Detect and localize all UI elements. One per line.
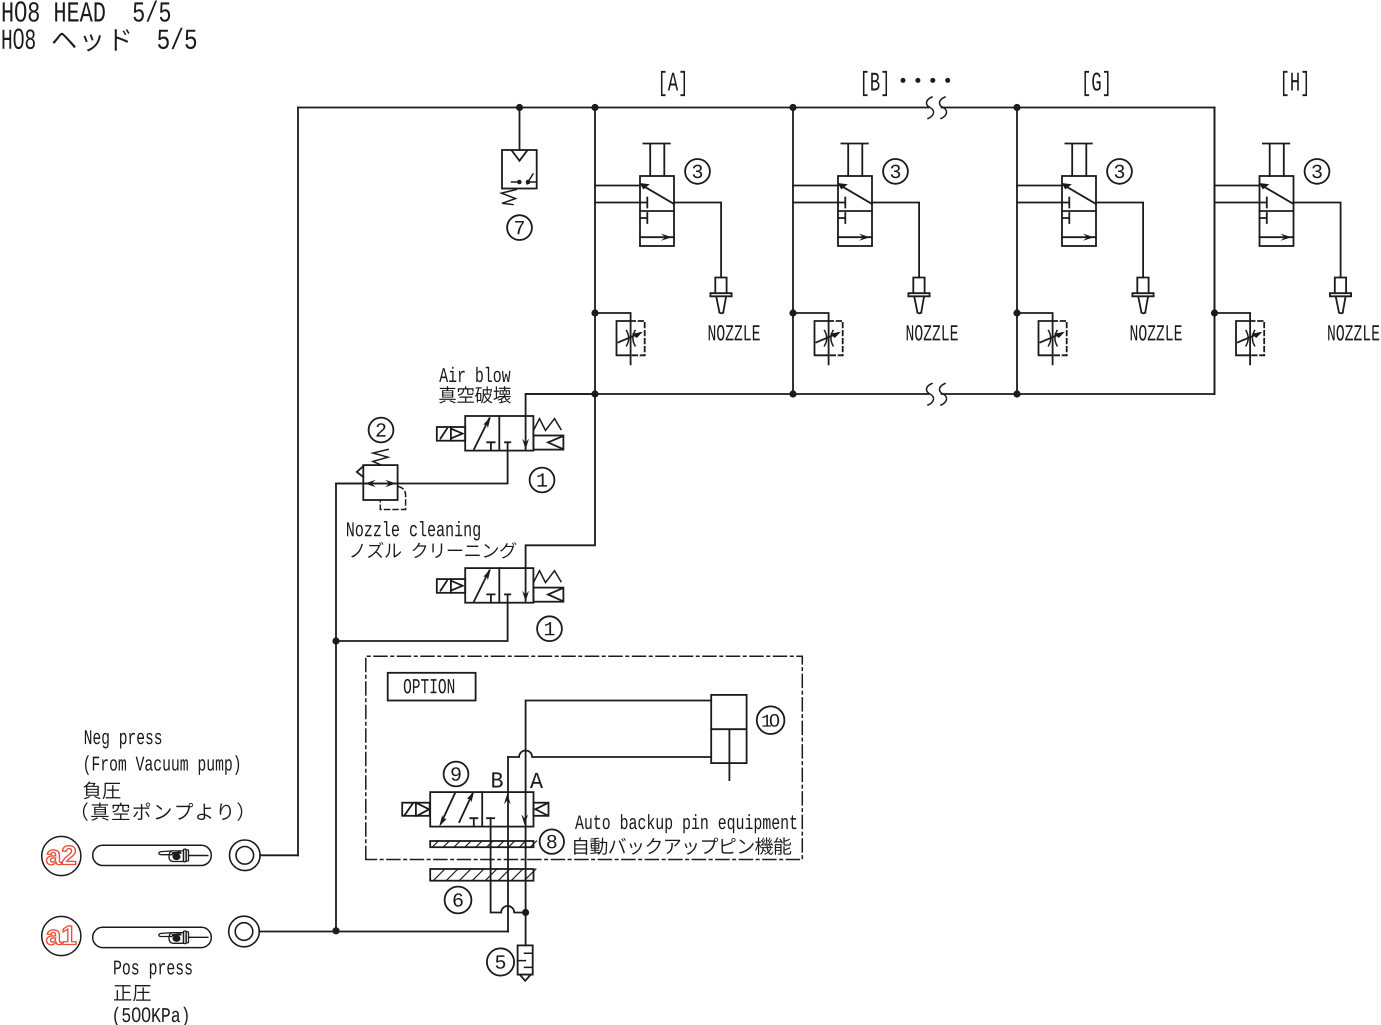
- vacuum switch 7 body: [502, 150, 537, 189]
- a1 port double circle: [229, 916, 260, 947]
- header [H]: [1283, 71, 1307, 96]
- From Vacuum pump label: [85, 755, 239, 775]
- junction meter branch H: [1211, 309, 1218, 316]
- vacuum bus (bottom): [526, 393, 1215, 395]
- valve 9 pilot return box: [534, 803, 549, 816]
- a2 wire to riser: [260, 854, 298, 856]
- title line 2b: [158, 28, 196, 49]
- head group [H] valve+nozzle+meter: [1215, 108, 1352, 395]
- exhaust line from valve 9 with hop: [491, 818, 526, 912]
- title line 1: [3, 0, 170, 21]
- Nozzle cleaning label: [347, 521, 480, 541]
- balloon 1 nozzle cleaning: [537, 616, 562, 641]
- title line 2a: [3, 29, 35, 50]
- balloon 3 of group A: [685, 159, 710, 184]
- title line 2 katakana HEADO: [53, 29, 130, 51]
- left neg-press riser from a2: [297, 108, 299, 856]
- junction meter branch A: [591, 309, 598, 316]
- balloon 7: [507, 215, 532, 240]
- balloon 2: [369, 418, 394, 443]
- pos press kanji SEIATSU: [114, 985, 151, 1001]
- nozzle cleaning katakana: [351, 542, 516, 559]
- wire from top bus to vacuum switch 7: [519, 108, 521, 151]
- junction top bus / column G: [1013, 104, 1020, 111]
- port label A: [530, 773, 543, 788]
- Air blow label: [439, 367, 510, 382]
- junction top bus / column A: [591, 104, 598, 111]
- junction vacuum bus / column B: [789, 390, 796, 397]
- a2 hand pointer: [159, 849, 189, 862]
- nozzle cleaning valve outlet to pos-press riser: [336, 594, 508, 641]
- balloon 10: [757, 706, 785, 734]
- valve 9 crossed diagonals: [442, 793, 456, 823]
- supply line from vacuum bus to air blow valve: [526, 394, 595, 449]
- Pos press label: [114, 961, 192, 979]
- valve 9 up arrow (supply to B): [504, 794, 511, 805]
- Auto backup pin equipment label: [575, 814, 796, 833]
- a2 port double circle: [230, 840, 261, 871]
- a1 supply wire: [259, 931, 508, 933]
- Neg press label: [85, 730, 161, 748]
- junction meter branch B: [789, 309, 796, 316]
- silencer 5: [518, 945, 533, 974]
- head group [G] valve+nozzle+meter: [1017, 108, 1154, 395]
- OPTION label box: [388, 673, 476, 701]
- air blow kanji SHINKU-HAKAI: [439, 386, 511, 403]
- exhaust drop to silencer 5: [525, 913, 527, 946]
- neg press kanji paren: [83, 802, 242, 821]
- cylinder A line: [526, 701, 712, 913]
- head group [B] valve+nozzle+meter: [793, 108, 930, 395]
- regulator 2 feedback dashed: [380, 487, 405, 510]
- NOZZLE label H: [1328, 325, 1379, 341]
- dots after [B]: [901, 78, 906, 83]
- a1 capsule: [93, 927, 212, 947]
- a1 tag circle: [42, 916, 81, 955]
- air blow valve outlet to regulator: [336, 442, 508, 483]
- regulator 2 body: [363, 465, 397, 500]
- auto backup kanji: [574, 837, 791, 855]
- a1 hand pointer: [159, 931, 189, 944]
- backup pin plate 8 (hatched): [430, 841, 533, 847]
- a2 tag circle: [42, 836, 81, 875]
- balloon 8: [540, 829, 564, 853]
- header [B]: [863, 71, 887, 96]
- OPTION text: [404, 679, 454, 694]
- balloon 3 of group B: [883, 159, 908, 184]
- NOZZLE label G: [1131, 325, 1182, 341]
- junction top bus / switch 7 tap: [516, 104, 523, 111]
- valve 9 body: [430, 792, 533, 827]
- vacuum switch 7 spring: [502, 190, 517, 205]
- junction top bus / column B: [789, 104, 796, 111]
- junction dot exhaust to silencer: [522, 909, 529, 916]
- board plate 6 (hatched): [430, 869, 533, 881]
- nozzle cleaning solenoid valve 1: [437, 568, 564, 603]
- balloon 5: [487, 948, 514, 975]
- valve 9 solenoid: [402, 803, 430, 816]
- regulator 2 spring: [373, 449, 388, 464]
- junction meter branch G: [1013, 309, 1020, 316]
- balloon 9: [444, 762, 469, 787]
- valve 9 blocked T ports: [470, 818, 477, 826]
- cylinder B line with crossover hop: [508, 751, 711, 758]
- air blow solenoid valve 1: [437, 416, 564, 451]
- valve 9 down arrow (A to exhaust): [521, 814, 528, 825]
- 500KPa label: [114, 1007, 187, 1025]
- neg press kanji FUATSU: [84, 781, 121, 799]
- top bus break mark: [926, 97, 946, 119]
- port label B: [492, 772, 502, 787]
- a2 capsule: [93, 845, 212, 865]
- junction dot pos-press riser / a1 wire: [332, 927, 339, 934]
- balloon 6: [445, 887, 472, 914]
- regulator 2 flow path with arrows: [363, 483, 398, 485]
- header [A]: [661, 71, 685, 96]
- junction vacuum bus / column G: [1013, 390, 1020, 397]
- riser continues below vacuum bus to nozzle cleaning: [526, 394, 595, 601]
- regulator 2 relief triangle: [357, 466, 364, 477]
- balloon 3 of group G: [1107, 159, 1132, 184]
- NOZZLE label B: [907, 325, 958, 341]
- head group [A] valve+nozzle+meter: [595, 108, 732, 395]
- balloon 1 air blow: [530, 468, 555, 493]
- top supply bus: [298, 107, 1215, 109]
- vacuum switch 7 check-poppet mark: [512, 151, 527, 161]
- supply riser through valve 9: [507, 757, 509, 932]
- NOZZLE label A: [709, 325, 760, 341]
- pos press riser: [336, 484, 363, 931]
- OPTION dash-dot enclosure: [366, 656, 803, 859]
- right bus end drop to [H] column: [1214, 108, 1216, 395]
- vacuum switch 7 electric contact: [512, 174, 536, 184]
- junction dot nozzle cleaning outlet: [332, 637, 339, 644]
- balloon 3 of group H: [1305, 159, 1330, 184]
- bottom bus break mark: [926, 384, 946, 406]
- junction vacuum bus / column A: [591, 390, 598, 397]
- header [G]: [1084, 71, 1108, 96]
- backup pin cylinder 10: [711, 695, 746, 763]
